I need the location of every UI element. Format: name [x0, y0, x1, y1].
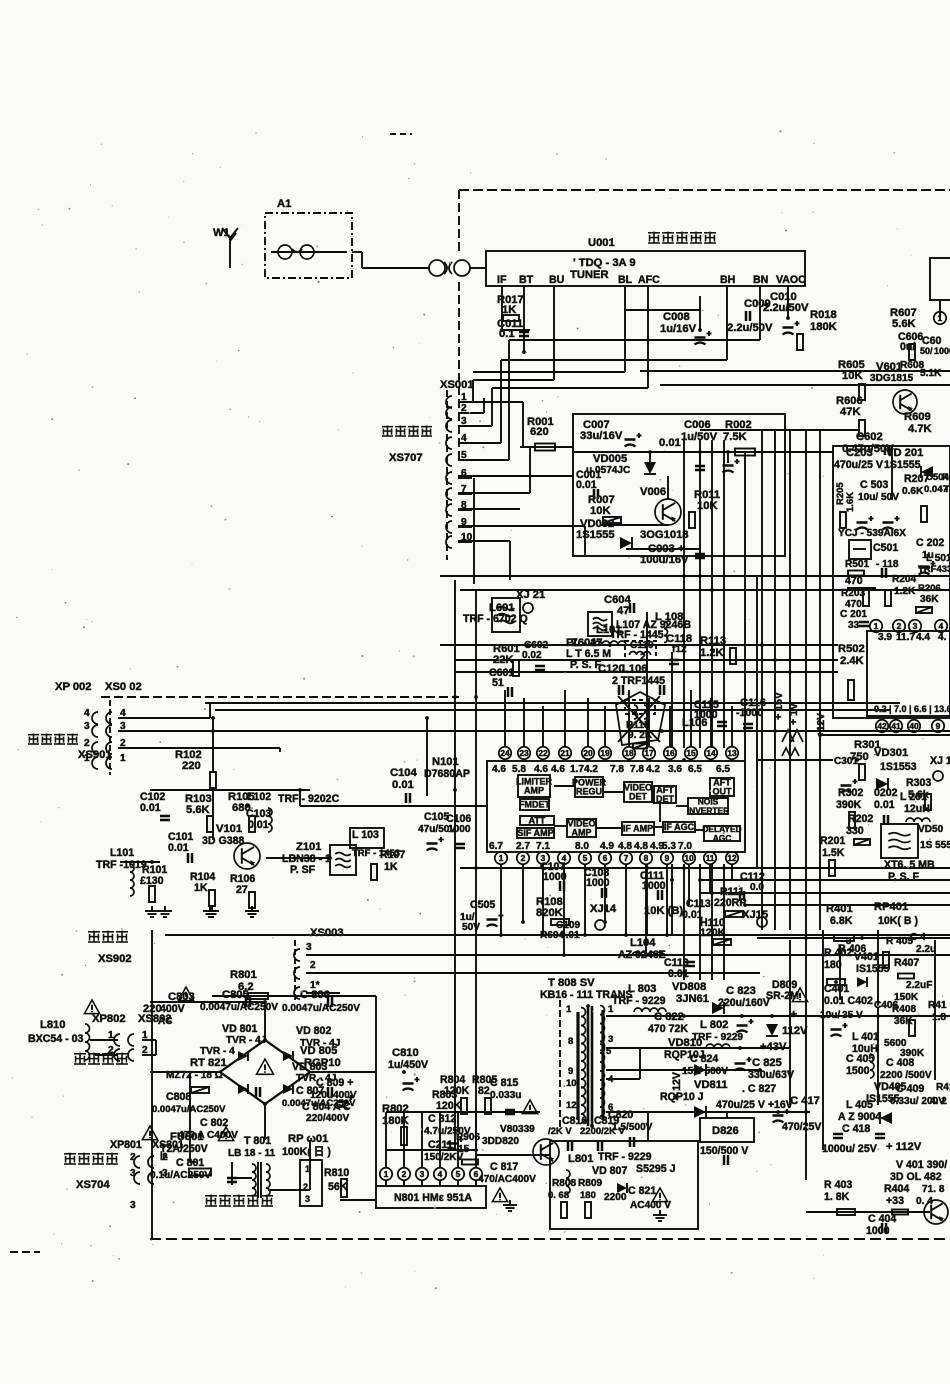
- svg-text:P. S. F: P. S. F: [888, 871, 920, 883]
- svg-text:L801: L801: [568, 1153, 594, 1165]
- svg-text:VD301: VD301: [874, 747, 908, 759]
- svg-text:1: 1: [305, 1164, 310, 1174]
- svg-text:R 403: R 403: [824, 1179, 852, 1191]
- svg-text:0.01: 0.01: [140, 802, 161, 814]
- svg-text:DET: DET: [656, 794, 675, 804]
- svg-text:C008: C008: [663, 311, 690, 323]
- svg-text:42: 42: [877, 721, 887, 731]
- svg-text:C 801: C 801: [176, 1157, 204, 1169]
- svg-text:+ 12V: + 12V: [671, 1072, 683, 1100]
- svg-text:R202: R202: [848, 813, 873, 825]
- svg-text:12: 12: [727, 853, 737, 863]
- svg-text:R502: R502: [838, 643, 865, 655]
- svg-text:C 409: C 409: [896, 1083, 924, 1095]
- svg-text:2.7: 2.7: [516, 841, 530, 852]
- svg-text:VD808: VD808: [672, 981, 706, 993]
- svg-text:1K: 1K: [384, 861, 398, 873]
- svg-text:2: 2: [303, 1182, 308, 1192]
- svg-text:+ 112V: + 112V: [886, 1141, 922, 1153]
- svg-text:SR-2M: SR-2M: [766, 990, 799, 1002]
- svg-text:220: 220: [143, 1003, 162, 1015]
- svg-text:22: 22: [538, 748, 548, 758]
- svg-text:S5295 J: S5295 J: [636, 1163, 676, 1175]
- svg-text:P. SF: P. SF: [290, 864, 316, 876]
- svg-text:1u/16V: 1u/16V: [660, 323, 697, 335]
- svg-text:C820: C820: [608, 1109, 633, 1121]
- svg-text:C 418: C 418: [842, 1123, 870, 1135]
- svg-text:C 503: C 503: [860, 479, 888, 491]
- svg-text:R 402: R 402: [824, 947, 852, 959]
- svg-text:0.033u: 0.033u: [490, 1090, 521, 1101]
- svg-text:3: 3: [130, 1200, 136, 1211]
- svg-text:C 201: C 201: [840, 609, 867, 620]
- svg-text:BN: BN: [753, 274, 768, 286]
- svg-text:71. 8: 71. 8: [922, 1184, 945, 1195]
- svg-text:C 405: C 405: [846, 1053, 874, 1065]
- svg-text:5.3: 5.3: [662, 841, 676, 852]
- svg-text:1S1553: 1S1553: [880, 761, 917, 773]
- svg-text:470 72K: 470 72K: [648, 1023, 688, 1035]
- svg-text:470/AC400V: 470/AC400V: [478, 1174, 536, 1185]
- svg-text:XJ15: XJ15: [742, 909, 768, 921]
- svg-text:2.2u/50V: 2.2u/50V: [727, 322, 773, 334]
- svg-text:10K: 10K: [590, 505, 611, 517]
- svg-text:T 801: T 801: [244, 1135, 271, 1147]
- svg-text:3: 3: [420, 1169, 425, 1179]
- svg-text:D826: D826: [712, 1125, 739, 1137]
- svg-text:0.01 C402: 0.01 C402: [824, 995, 873, 1007]
- svg-text:120K: 120K: [436, 1100, 462, 1112]
- svg-text:C501: C501: [873, 542, 898, 554]
- svg-text:C 815: C 815: [490, 1077, 518, 1089]
- svg-text:7.8: 7.8: [630, 764, 644, 775]
- svg-text:L810: L810: [40, 1019, 66, 1031]
- svg-text:50V: 50V: [462, 922, 480, 933]
- svg-text:C104: C104: [390, 767, 418, 779]
- svg-text:IF AGC: IF AGC: [664, 822, 695, 832]
- svg-text:1500: 1500: [846, 1065, 870, 1077]
- svg-text:' TDQ - 3A 9: ' TDQ - 3A 9: [573, 257, 636, 269]
- svg-text:V 401 390/: V 401 390/: [896, 1159, 947, 1171]
- svg-text:R302: R302: [838, 787, 863, 799]
- svg-text:2200/2K V: 2200/2K V: [580, 1126, 626, 1137]
- svg-text:TRF -1019: TRF -1019: [96, 859, 147, 871]
- svg-text:10u/: 10u/: [820, 1010, 840, 1021]
- svg-text:1: 1: [120, 753, 126, 764]
- svg-text:220: 220: [182, 760, 201, 772]
- svg-text:2: 2: [402, 1169, 407, 1179]
- svg-text:L 405: L 405: [846, 1099, 873, 1111]
- svg-text:50/: 50/: [920, 346, 933, 356]
- svg-text:T 808 SV: T 808 SV: [548, 977, 595, 989]
- svg-text:1u/450V: 1u/450V: [388, 1059, 428, 1071]
- svg-text:1: 1: [566, 1004, 572, 1015]
- svg-text:RP ω01: RP ω01: [288, 1133, 328, 1145]
- svg-text:C 824: C 824: [690, 1053, 718, 1065]
- svg-text:BXC54 - 03: BXC54 - 03: [28, 1033, 83, 1045]
- svg-text:4.2: 4.2: [646, 764, 660, 775]
- svg-text:A Z 9004: A Z 9004: [838, 1111, 881, 1123]
- svg-text:2.2u/50V: 2.2u/50V: [763, 302, 809, 314]
- svg-text:R206: R206: [918, 583, 941, 594]
- svg-text:R808: R808: [552, 1178, 577, 1189]
- svg-text:8: 8: [568, 1036, 573, 1047]
- svg-text:OUT: OUT: [713, 787, 733, 797]
- svg-text:XP802: XP802: [92, 1013, 126, 1025]
- svg-text:8.0: 8.0: [575, 841, 589, 852]
- svg-text:2: 2: [521, 853, 526, 863]
- svg-text:1: 1: [384, 1169, 389, 1179]
- svg-text:- 118: - 118: [876, 559, 899, 570]
- svg-text:C808: C808: [166, 1091, 191, 1103]
- svg-text:0.01: 0.01: [659, 437, 681, 449]
- svg-text:33: 33: [848, 620, 860, 631]
- svg-text:6.7: 6.7: [489, 841, 503, 852]
- svg-text:180K: 180K: [382, 1115, 409, 1127]
- svg-text:+43V: +43V: [760, 1041, 787, 1053]
- svg-text:0u/: 0u/: [900, 341, 915, 353]
- svg-text:. C 827: . C 827: [742, 1083, 776, 1095]
- svg-text:3: 3: [130, 1168, 136, 1179]
- svg-text:1K: 1K: [194, 882, 208, 894]
- svg-text:15: 15: [686, 748, 696, 758]
- svg-text:470/25V: 470/25V: [782, 1121, 821, 1133]
- svg-text:R41: R41: [928, 1000, 947, 1011]
- svg-text:0.01: 0.01: [168, 842, 189, 854]
- svg-text:XS001: XS001: [440, 379, 474, 391]
- svg-text:9: 9: [936, 721, 941, 731]
- svg-text:BL: BL: [618, 274, 633, 286]
- svg-text:C119: C119: [630, 640, 654, 651]
- svg-text:1000u/ 25V: 1000u/ 25V: [822, 1143, 877, 1155]
- svg-text:0.2 | 7.0 | 6.6 | 13.6: 0.2 | 7.0 | 6.6 | 13.6: [874, 704, 950, 714]
- svg-text:REGU: REGU: [576, 787, 602, 797]
- svg-text:2200: 2200: [604, 1192, 627, 1203]
- svg-text:6.5: 6.5: [688, 764, 702, 775]
- svg-text:VAOC: VAOC: [776, 274, 806, 286]
- svg-text:FU801: FU801: [170, 1131, 204, 1143]
- svg-text:40: 40: [909, 721, 919, 731]
- svg-text:9: 9: [568, 1066, 573, 1077]
- svg-text:R204: R204: [892, 574, 917, 585]
- svg-text:R407: R407: [894, 957, 919, 969]
- svg-text:1S 555: 1S 555: [920, 840, 950, 851]
- svg-text:R501: R501: [845, 559, 870, 570]
- svg-text:L 802: L 802: [700, 1019, 728, 1031]
- svg-text:R018: R018: [810, 309, 837, 321]
- svg-text:4.9: 4.9: [600, 841, 614, 852]
- svg-text:0.0047u/AC250V: 0.0047u/AC250V: [200, 1002, 278, 1013]
- svg-text:1S1555: 1S1555: [884, 459, 921, 471]
- svg-text:6.8K: 6.8K: [830, 915, 853, 927]
- svg-text:R609: R609: [904, 411, 931, 423]
- svg-text:AFC: AFC: [638, 274, 660, 286]
- svg-text:0.0047u/AC250V: 0.0047u/AC250V: [152, 1104, 226, 1115]
- svg-text:TRF - 6702 Q: TRF - 6702 Q: [463, 613, 528, 625]
- svg-text:11.7: 11.7: [896, 632, 915, 643]
- svg-text:470u/25 V +16V: 470u/25 V +16V: [716, 1099, 793, 1111]
- svg-text:R401: R401: [826, 903, 853, 915]
- svg-text:VD 807: VD 807: [592, 1165, 627, 1177]
- svg-text:XJ14: XJ14: [590, 903, 617, 915]
- svg-text:2: 2: [130, 1152, 136, 1163]
- svg-text:C602: C602: [856, 431, 883, 443]
- svg-text:1.5K: 1.5K: [822, 847, 845, 859]
- svg-text:XS0 02: XS0 02: [105, 681, 142, 693]
- svg-text:3.6: 3.6: [668, 764, 682, 775]
- svg-text:47: 47: [617, 605, 629, 617]
- svg-text:AC: AC: [158, 1016, 173, 1027]
- svg-text:C 821: C 821: [628, 1185, 656, 1197]
- svg-text:C301: C301: [834, 756, 859, 767]
- svg-text:XP 002: XP 002: [55, 681, 92, 693]
- svg-text:XS704: XS704: [76, 1179, 110, 1191]
- svg-text:R 5: R 5: [942, 472, 950, 483]
- svg-text:0.01: 0.01: [668, 968, 689, 980]
- svg-text:VD005: VD005: [593, 453, 627, 465]
- svg-text:35 V: 35 V: [842, 1010, 863, 1021]
- svg-text:VD 801: VD 801: [222, 1023, 257, 1035]
- svg-text:3: 3: [608, 1034, 613, 1045]
- svg-text:SIF AMP: SIF AMP: [517, 828, 553, 838]
- svg-text:4.8: 4.8: [634, 841, 648, 852]
- svg-text:C 408: C 408: [886, 1057, 914, 1069]
- svg-text:0202: 0202: [874, 787, 898, 799]
- svg-text:16: 16: [665, 748, 675, 758]
- svg-text:15: 15: [458, 1144, 470, 1155]
- svg-text:112V: 112V: [782, 1025, 808, 1037]
- svg-text:RP401: RP401: [874, 901, 908, 913]
- svg-text:4. 2: 4. 2: [930, 1096, 947, 1107]
- svg-text:14: 14: [706, 748, 716, 758]
- svg-text:7.5K: 7.5K: [723, 431, 747, 443]
- svg-text:18: 18: [624, 748, 634, 758]
- svg-text:20: 20: [583, 748, 593, 758]
- svg-text:180: 180: [580, 1190, 596, 1201]
- svg-text:C 817: C 817: [490, 1161, 518, 1173]
- svg-text:LB 18 - 11: LB 18 - 11: [228, 1148, 276, 1159]
- svg-text:D7680AP: D7680AP: [424, 768, 470, 780]
- svg-text:4.: 4.: [938, 632, 947, 643]
- svg-text:AGC: AGC: [713, 833, 732, 843]
- svg-text:U001: U001: [588, 237, 615, 249]
- svg-text:C 809 +: C 809 +: [316, 1077, 353, 1089]
- svg-text:1S1555: 1S1555: [576, 529, 615, 541]
- svg-text:TRF433: TRF433: [918, 564, 950, 575]
- svg-text:C810: C810: [392, 1047, 419, 1059]
- svg-text:V101: V101: [216, 823, 242, 835]
- svg-text:1000: 1000: [934, 346, 950, 356]
- svg-text:120u400V: 120u400V: [310, 1090, 357, 1101]
- svg-text:2: 2: [640, 652, 646, 663]
- svg-text:RGP10: RGP10: [304, 1057, 341, 1069]
- svg-text:ATT: ATT: [529, 816, 546, 826]
- svg-text:L 401: L 401: [852, 1031, 879, 1043]
- svg-text:+: +: [790, 1007, 797, 1021]
- svg-text:XS902: XS902: [98, 953, 132, 965]
- svg-text:VD 802: VD 802: [296, 1025, 331, 1037]
- svg-text:AMP: AMP: [524, 786, 544, 796]
- svg-text:7.0: 7.0: [678, 841, 692, 852]
- svg-text:YCJ - 539Al6X: YCJ - 539Al6X: [838, 528, 906, 539]
- svg-text:3D G388: 3D G388: [202, 835, 245, 847]
- svg-text:10u/ 50V: 10u/ 50V: [858, 492, 899, 503]
- svg-text:2.2u: 2.2u: [916, 944, 936, 955]
- svg-text:A1: A1: [277, 198, 291, 210]
- svg-text:620: 620: [530, 426, 549, 438]
- svg-text:390K: 390K: [836, 799, 862, 811]
- svg-text:470: 470: [845, 575, 863, 587]
- svg-text:C203: C203: [846, 447, 873, 459]
- svg-text:L 103: L 103: [352, 829, 379, 841]
- svg-text:IF: IF: [497, 274, 507, 286]
- svg-text:BH: BH: [720, 274, 735, 286]
- svg-text:17: 17: [644, 748, 654, 758]
- svg-text:3DG1815: 3DG1815: [870, 373, 914, 384]
- svg-text:180K: 180K: [810, 321, 837, 333]
- svg-text:1: 1: [874, 621, 879, 631]
- svg-text:21: 21: [560, 748, 570, 758]
- svg-text:XP801: XP801: [110, 1139, 142, 1151]
- svg-text:6: 6: [603, 853, 608, 863]
- svg-text:XS707: XS707: [389, 452, 423, 464]
- svg-text:1: 1: [608, 1004, 614, 1015]
- svg-text:0.6K: 0.6K: [902, 486, 924, 497]
- svg-text:4: 4: [939, 621, 944, 631]
- svg-text:2: 2: [84, 738, 90, 749]
- svg-text:TUNER: TUNER: [570, 269, 609, 281]
- svg-text:2200 /500V: 2200 /500V: [880, 1070, 932, 1081]
- svg-text:L 803: L 803: [628, 983, 656, 995]
- svg-text:2: 2: [897, 621, 902, 631]
- svg-text:+33: +33: [886, 1195, 904, 1207]
- svg-text:5.6K: 5.6K: [892, 318, 916, 330]
- svg-text:L101: L101: [110, 847, 134, 859]
- svg-text:R810: R810: [324, 1167, 349, 1179]
- svg-text:19: 19: [600, 748, 610, 758]
- svg-text:220/400V: 220/400V: [306, 1113, 349, 1124]
- svg-text:5: 5: [583, 853, 588, 863]
- svg-text:6.5: 6.5: [716, 764, 730, 775]
- svg-text:R201: R201: [820, 835, 845, 847]
- svg-text:C 822: C 822: [654, 1011, 684, 1023]
- svg-text:TRF - 9202C: TRF - 9202C: [278, 793, 340, 805]
- svg-text:R802: R802: [382, 1103, 409, 1115]
- svg-text:4: 4: [84, 708, 90, 719]
- svg-text:11: 11: [706, 853, 715, 863]
- svg-text:VD50: VD50: [918, 824, 944, 835]
- svg-text:3: 3: [84, 721, 90, 732]
- svg-text:56K: 56K: [328, 1181, 348, 1193]
- svg-text:XS003: XS003: [310, 927, 344, 939]
- svg-text:100u/16V: 100u/16V: [640, 554, 689, 566]
- svg-text:XT6. 5 MB: XT6. 5 MB: [884, 859, 935, 871]
- svg-text:1000: 1000: [448, 824, 471, 835]
- svg-text:151/ 500V: 151/ 500V: [682, 1066, 728, 1077]
- svg-text:IF AMP: IF AMP: [623, 824, 653, 834]
- svg-text:L104: L104: [630, 937, 656, 949]
- svg-text:2: 2: [310, 960, 316, 971]
- svg-text:6.2: 6.2: [238, 981, 254, 993]
- svg-text:V006: V006: [640, 486, 666, 498]
- svg-text:820K: 820K: [536, 907, 563, 919]
- svg-text:3.9: 3.9: [878, 632, 892, 643]
- svg-text:3D OL 482: 3D OL 482: [890, 1171, 942, 1183]
- svg-text:36K: 36K: [894, 1016, 913, 1027]
- svg-text:51: 51: [492, 677, 504, 689]
- svg-text:4.6: 4.6: [551, 764, 565, 775]
- svg-text:400V: 400V: [160, 1003, 185, 1015]
- svg-text:C 202: C 202: [916, 537, 944, 549]
- svg-text:C120: C120: [598, 663, 625, 675]
- svg-text:23: 23: [519, 748, 529, 758]
- svg-text:33u/16V: 33u/16V: [580, 430, 623, 442]
- svg-text:AMP: AMP: [572, 828, 592, 838]
- svg-text:4.2: 4.2: [584, 764, 598, 775]
- svg-text:2.2uF: 2.2uF: [906, 980, 932, 991]
- svg-text:V80339: V80339: [500, 1124, 535, 1135]
- svg-text:TVR - 4: TVR - 4: [200, 1046, 235, 1057]
- svg-text:470u/25 V: 470u/25 V: [834, 459, 883, 471]
- svg-text:4: 4: [438, 1169, 443, 1179]
- svg-text:4.6: 4.6: [492, 764, 506, 775]
- svg-text:5.1K: 5.1K: [920, 368, 942, 379]
- svg-text:MZ72 - 18 Ω: MZ72 - 18 Ω: [166, 1070, 223, 1081]
- svg-text:3DD820: 3DD820: [482, 1136, 519, 1147]
- svg-text:220u/160V: 220u/160V: [718, 997, 770, 1009]
- svg-text:7.8: 7.8: [610, 764, 624, 775]
- svg-text:13: 13: [727, 748, 737, 758]
- svg-text:100K( 日 ): 100K( 日 ): [282, 1146, 331, 1158]
- svg-text:3JN61: 3JN61: [676, 993, 709, 1005]
- svg-text:N801 HMε 951A: N801 HMε 951A: [394, 1192, 472, 1204]
- svg-text:24: 24: [500, 748, 510, 758]
- svg-text:4.7K: 4.7K: [908, 423, 932, 435]
- svg-text:INVERTER: INVERTER: [687, 806, 729, 816]
- svg-text:1.2K: 1.2K: [894, 586, 916, 597]
- svg-text:+ 15V: + 15V: [773, 692, 785, 720]
- svg-text:0. 68: 0. 68: [548, 1190, 569, 1201]
- svg-text:C 417: C 417: [790, 1095, 820, 1107]
- svg-text:C 802: C 802: [200, 1117, 228, 1129]
- svg-text:R404: R404: [884, 1183, 909, 1195]
- svg-text:10: 10: [684, 853, 694, 863]
- svg-text:/2K V: /2K V: [548, 1126, 572, 1137]
- svg-text:12uH: 12uH: [904, 803, 930, 815]
- svg-text:-1000: -1000: [736, 707, 763, 719]
- svg-text:C 825: C 825: [752, 1057, 782, 1069]
- svg-text:RT 821: RT 821: [190, 1057, 227, 1069]
- svg-text:R303: R303: [906, 777, 931, 789]
- svg-text:10K( B ): 10K( B ): [878, 915, 918, 927]
- svg-text:R801: R801: [230, 969, 257, 981]
- svg-text:Z101: Z101: [296, 841, 322, 853]
- svg-text:T06: T06: [944, 484, 950, 495]
- svg-text:R809: R809: [578, 1178, 603, 1189]
- svg-text:BT: BT: [519, 274, 534, 286]
- svg-text:5: 5: [456, 1169, 461, 1179]
- svg-text:R107: R107: [380, 849, 405, 861]
- svg-text:1: 1: [499, 853, 504, 863]
- svg-text:3OG1018: 3OG1018: [640, 529, 689, 541]
- svg-text:W1: W1: [213, 227, 230, 239]
- svg-text:5.8: 5.8: [512, 764, 526, 775]
- svg-text:5.6K: 5.6K: [186, 804, 210, 816]
- svg-text:3: 3: [306, 942, 312, 953]
- svg-text:TRF - 9229: TRF - 9229: [598, 1151, 652, 1163]
- svg-text:T2A/250V: T2A/250V: [160, 1143, 208, 1155]
- svg-text:220RP: 220RP: [714, 897, 746, 909]
